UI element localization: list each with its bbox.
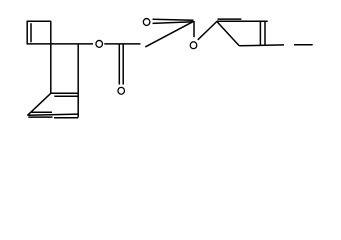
wire: O4 to apex A slant [198,22,217,40]
wire: right vertical double line 1 [259,21,261,45]
wire: lower ring inner short line [31,111,52,113]
wire: A to D slant [217,21,240,46]
wire: C1=O2 double bond line a [118,44,120,85]
wire: O3=C2 lower line [153,22,194,24]
wire: CH2 to C2 slant [145,21,193,47]
wire: long vertical right edge of square [50,21,52,93]
wire: bottom chain D-E-F [239,44,284,47]
wire: C2 to O4 vertical [193,21,195,37]
wire: O1 to carbonyl C1 [104,43,140,45]
wire: O3=C2 upper line [153,19,194,20]
node O3 carbonyl oxygen [143,19,150,26]
wire: bottom edge extending to O1 [27,43,93,45]
wire: top chain A-B-C [217,20,268,22]
wire: lower ring second bottom line right part [54,117,78,119]
wire: cyclobutene left double bond inner line [30,23,32,42]
wire: right vertical double line 2 [264,21,266,45]
wire: top double bond inner line [218,18,242,20]
node O4 ester oxygen [190,42,197,49]
node O1 ester oxygen [96,40,103,47]
wire: C1=O2 double bond line b [122,44,124,85]
wire: lower ring top pair inner [54,95,78,97]
wire: far right segment [294,44,313,46]
wire: lower ring second bottom line left part [28,116,52,118]
wire: cyclobutene left edge [26,21,28,44]
wire: lower ring bottom main line [28,114,79,115]
wire: long vertical second [77,44,79,118]
wire: cyclobutene top edge [27,20,52,22]
wire: lower ring top pair outer [51,92,78,94]
node O2 carbonyl oxygen [118,87,125,94]
wire: lower ring slant [27,93,50,115]
